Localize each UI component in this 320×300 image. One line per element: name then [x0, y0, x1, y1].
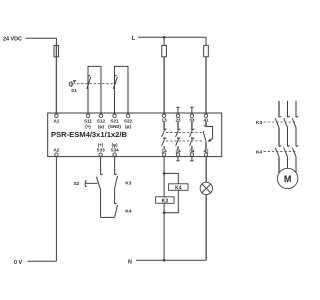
contact 41-42 NC	[203, 122, 213, 150]
S2 actuator	[85, 181, 97, 187]
svg-text:33: 33	[189, 117, 195, 122]
svg-text:S1: S1	[71, 88, 77, 94]
svg-text:(GND): (GND)	[108, 124, 121, 129]
fuse F2	[162, 45, 167, 56]
svg-text:(φ): (φ)	[98, 124, 105, 129]
terminal 23	[176, 114, 179, 117]
reset branch S34: contact K3	[115, 156, 118, 188]
terminal 42	[204, 153, 207, 156]
terminal 14	[162, 153, 165, 156]
svg-text:(φ): (φ)	[125, 124, 132, 129]
svg-text:13: 13	[162, 117, 168, 122]
svg-text:S33: S33	[97, 148, 106, 153]
coil K4	[169, 184, 188, 191]
contact S1 channel 1	[87, 75, 91, 114]
terminal S21	[113, 114, 116, 117]
mechanical link dashed upper	[166, 132, 204, 134]
svg-text:K3: K3	[162, 198, 169, 204]
terminal S34	[113, 153, 116, 156]
wire loop S21-S22	[115, 66, 129, 114]
coil K3	[156, 197, 174, 204]
wire F1 to A1	[55, 45, 57, 114]
svg-text:M: M	[284, 174, 292, 184]
svg-text:S22: S22	[124, 118, 133, 123]
svg-text:N: N	[128, 259, 132, 265]
wire F2 to terminal 13	[163, 57, 165, 114]
terminal 33	[190, 114, 193, 117]
wire F3 to terminal 41	[205, 57, 207, 114]
contact 33-34	[190, 122, 195, 150]
svg-text:23: 23	[175, 117, 181, 122]
terminal S22	[126, 114, 129, 117]
svg-text:0 V: 0 V	[14, 260, 22, 266]
svg-text:K4: K4	[125, 209, 131, 215]
svg-text:K4: K4	[256, 149, 262, 155]
contactor K4 main contacts	[275, 145, 298, 156]
terminal 24	[176, 153, 179, 156]
contactor K3 main contacts	[275, 116, 298, 127]
mechanical link dashed lower	[166, 140, 204, 142]
stub terminal 24	[177, 156, 179, 161]
svg-text:L: L	[132, 36, 136, 42]
svg-text:A1: A1	[53, 118, 59, 123]
contact 23-24	[176, 122, 181, 150]
motor M	[277, 168, 297, 188]
svg-text:(φ): (φ)	[112, 143, 119, 148]
svg-text:24 VDC: 24 VDC	[3, 36, 22, 42]
wire K3 coil down	[163, 203, 165, 260]
stub terminal 33	[191, 107, 193, 114]
reset branch S33: contact S2	[96, 156, 102, 217]
terminal 13	[162, 114, 165, 117]
wire main to K3 coil	[163, 173, 165, 196]
svg-text:41: 41	[203, 117, 209, 122]
terminal S33	[99, 153, 102, 156]
wire A2 to 0V	[55, 156, 57, 261]
svg-text:S34: S34	[111, 148, 120, 153]
svg-text:S11: S11	[84, 118, 92, 123]
terminal A1	[55, 114, 58, 117]
terminal 34	[190, 153, 193, 156]
svg-text:(+): (+)	[98, 143, 104, 148]
emergency stop S1 actuator	[69, 81, 76, 87]
junction 14 branch	[163, 172, 166, 175]
wire L rail	[138, 37, 206, 45]
junction coils/N	[163, 211, 166, 214]
mechanical link K3 dashed	[264, 121, 298, 123]
mechanical link S1 dashed	[77, 83, 116, 85]
svg-text:K3: K3	[125, 181, 131, 187]
terminal S11	[86, 114, 89, 117]
wire loop S11-S12	[88, 66, 101, 114]
wire lamp to N	[205, 195, 207, 261]
phase mid segments	[279, 127, 296, 146]
phase lower segments	[279, 157, 296, 174]
rail 0V	[28, 260, 57, 262]
three phase lines L1 L2 L3	[279, 101, 296, 117]
terminal S12	[99, 114, 102, 117]
stub terminal 34	[191, 156, 193, 161]
svg-text:K3: K3	[256, 120, 262, 126]
reset branch: contact K4	[115, 188, 118, 217]
svg-text:(+): (+)	[85, 124, 91, 129]
svg-text:S21: S21	[110, 118, 119, 123]
svg-text:S12: S12	[97, 118, 106, 123]
relay box PSR-ESM4	[48, 113, 222, 157]
stub terminal 23	[177, 107, 179, 114]
fuse F1	[54, 45, 59, 56]
terminal 41	[204, 114, 207, 117]
svg-text:A2: A2	[53, 148, 59, 153]
svg-text:PSR-ESM4/3x1/1x2/B: PSR-ESM4/3x1/1x2/B	[51, 130, 127, 139]
wire branch to K4 coil	[164, 173, 178, 183]
wire K4 coil down	[164, 190, 178, 212]
contact 13-14	[162, 122, 167, 150]
wire 24VDC feed to fuse F1	[26, 38, 57, 45]
mechanical link K4 dashed	[264, 150, 298, 152]
svg-text:S2: S2	[73, 181, 79, 187]
wire L to fuse F2	[163, 37, 165, 45]
rail N	[136, 259, 206, 261]
wire 42 to lamp	[205, 156, 207, 182]
lamp H1	[200, 182, 212, 194]
terminal A2	[55, 153, 58, 156]
wire 14 down	[163, 156, 165, 173]
contact S1 channel 2	[113, 75, 117, 114]
wire reset loop bottom	[101, 216, 115, 218]
junction L/13	[163, 36, 166, 39]
fuse F3	[204, 45, 209, 56]
